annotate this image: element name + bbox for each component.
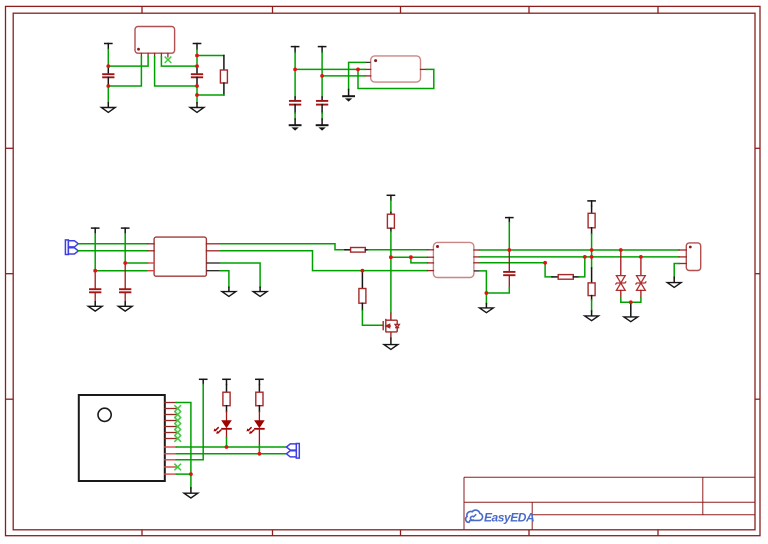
wire LED D3 to row A bbox=[226, 438, 228, 448]
U4 pin 6 right bbox=[474, 256, 480, 258]
U5 pin 2 bbox=[165, 408, 177, 410]
node bbox=[389, 255, 393, 259]
resistor R4 gate pulldown bbox=[359, 271, 366, 311]
P2 pin1 marker bbox=[689, 246, 692, 249]
ground under R7 bbox=[585, 311, 599, 321]
wire net A U3 pin5 to R2 bbox=[220, 244, 345, 250]
resistor R1 bbox=[220, 56, 227, 96]
node bbox=[106, 64, 110, 68]
wire bbox=[321, 53, 323, 98]
wire row A U5 pin8 to P3 pin1 bbox=[176, 446, 286, 448]
wire R6 to row1 bbox=[591, 234, 593, 257]
wire bbox=[390, 200, 392, 212]
no-connect flag pin6 bbox=[175, 430, 181, 436]
IC U3 bbox=[154, 237, 206, 276]
U5 pin 5 bbox=[165, 426, 177, 428]
wire branch to U4 pin3 bbox=[411, 257, 428, 263]
ground under C2 bbox=[190, 103, 204, 113]
zone tick right 3 bbox=[755, 398, 760, 400]
zone tick top 2 bbox=[272, 6, 274, 13]
wire bbox=[321, 113, 323, 119]
node bbox=[225, 445, 229, 449]
wire row3 down to R5 bbox=[545, 263, 552, 277]
power flag rail2 bbox=[122, 228, 129, 234]
LED D4 bbox=[246, 412, 264, 446]
U1 pin 3 bbox=[154, 53, 156, 57]
resistor R5 bbox=[552, 275, 579, 280]
U1 pin1 marker bbox=[137, 48, 140, 51]
wire U3 pin7 to ground bbox=[220, 263, 260, 287]
ground under U3 pin8 bbox=[222, 287, 236, 296]
capacitor C3 bbox=[290, 97, 300, 113]
node bbox=[629, 300, 633, 304]
U2 pin 2 bbox=[365, 68, 371, 70]
U5 pin 12 bbox=[165, 473, 177, 475]
capacitor C1 bbox=[103, 66, 113, 86]
power flag above C3 bbox=[292, 47, 299, 53]
no-connect flag on U1 pin 5 bbox=[165, 57, 171, 62]
zone tick top 5 bbox=[657, 6, 659, 13]
no-connect flag pin3 bbox=[175, 412, 181, 418]
wire R5 up to row2 bbox=[579, 257, 585, 277]
wire U1 pin4 to C2 top bbox=[161, 57, 197, 66]
power flag above C7 bbox=[506, 218, 513, 223]
power flag above R8 bbox=[223, 379, 230, 384]
connector P2 bbox=[686, 243, 700, 271]
U4 pin1 marker bbox=[436, 245, 439, 248]
ground under U5 bbox=[184, 488, 198, 498]
U4 pin 4 left bbox=[428, 270, 434, 272]
U5 pin 6 bbox=[165, 432, 177, 434]
LED D3 bbox=[214, 412, 232, 438]
U5 pin 10 bbox=[165, 459, 177, 461]
U5 pin1 circle marker bbox=[98, 408, 111, 421]
module U5 bbox=[79, 395, 165, 481]
capacitor C4 bbox=[317, 97, 327, 113]
wire U1 pin2 to C1 top bbox=[108, 57, 148, 66]
wire joining D1 D2 bottoms bbox=[621, 298, 641, 303]
U4 pin 1 left bbox=[428, 249, 434, 251]
power flag above R9 bbox=[256, 379, 263, 384]
U3 pin 5 right bbox=[206, 243, 220, 245]
wire P1 pin1 to U3 bbox=[78, 243, 147, 245]
node bbox=[639, 255, 643, 259]
power flag rail3 bbox=[200, 379, 207, 384]
U5 pin 11 bbox=[165, 466, 177, 468]
no-connect flag pin7 bbox=[175, 436, 181, 442]
wire drain node to U4 pin2 bbox=[391, 256, 428, 258]
node bbox=[195, 93, 199, 97]
U3 pin 1 left bbox=[148, 243, 155, 245]
zone tick left 1 bbox=[6, 147, 14, 149]
ground under C6 bbox=[118, 302, 132, 311]
node bbox=[619, 248, 623, 252]
U4 pin 3 left bbox=[428, 262, 434, 264]
power flag above R3 bbox=[387, 195, 394, 200]
connector P3 bbox=[286, 444, 299, 459]
wire rail2 bbox=[124, 234, 126, 263]
resistor R3 bbox=[387, 213, 394, 232]
title block outline bbox=[464, 477, 755, 530]
wire row2 U4 to P2 pin2 bbox=[480, 256, 679, 258]
wire bbox=[294, 113, 296, 119]
node bbox=[590, 255, 594, 259]
P2 pin 2 bbox=[679, 256, 686, 258]
ground under C1 bbox=[101, 103, 115, 113]
EasyEDA logo cloud bbox=[466, 510, 483, 522]
wire R1 bottom to C2 bbox=[197, 94, 224, 96]
wire P1 pin2 to U3 bbox=[78, 250, 147, 252]
P2 pin 3 bbox=[679, 263, 686, 265]
U4 pin 2 left bbox=[428, 256, 434, 258]
U2 pin 3 bbox=[365, 75, 371, 77]
no-connect flag pin11 bbox=[175, 464, 181, 470]
connector P1 bbox=[65, 240, 78, 255]
node bbox=[361, 269, 365, 273]
U4 pin 8 right bbox=[474, 270, 480, 272]
no-connect flag pin5 bbox=[175, 424, 181, 430]
no-connect flag pin2 bbox=[175, 406, 181, 412]
node bbox=[485, 291, 489, 295]
wire C3 to U2 pin2 bbox=[295, 68, 365, 70]
wire R7 to ground bbox=[591, 300, 593, 311]
capacitor C6 bbox=[120, 263, 130, 302]
node bbox=[590, 248, 594, 252]
node bbox=[293, 68, 297, 72]
U1 pin 5 bbox=[167, 53, 169, 57]
wire row3 U4 to R5 bbox=[480, 262, 545, 264]
IC U4 bbox=[433, 242, 474, 277]
U5 pin 1 bbox=[165, 402, 177, 404]
power flag above C2 bbox=[193, 44, 200, 50]
wire U5 pin10 to power rail3 bbox=[176, 385, 203, 460]
U2 pin1 marker bbox=[374, 59, 377, 62]
node bbox=[543, 261, 547, 265]
U4 pin 5 right bbox=[474, 249, 480, 251]
node bbox=[123, 261, 127, 265]
ground under diodes bbox=[624, 302, 638, 321]
node bbox=[258, 452, 262, 456]
wire bbox=[107, 86, 109, 103]
U3 pin 2 left bbox=[148, 250, 155, 252]
zone tick left 2 bbox=[6, 273, 14, 275]
wire rail1 branch to U3 pin4 bbox=[95, 270, 147, 272]
wire row1 U4 to P2 pin1 bbox=[480, 249, 679, 251]
P2 pin 1 bbox=[679, 249, 686, 251]
node bbox=[507, 248, 511, 252]
ground under C4 bbox=[316, 119, 329, 131]
U3 pin 7 right bbox=[206, 262, 220, 264]
wire U2 pin1 to ground bbox=[349, 62, 366, 89]
resistor R7 bbox=[588, 257, 595, 300]
wire P2 pin3 to ground bbox=[674, 264, 679, 278]
U3 pin 8 right bbox=[206, 270, 220, 272]
zone tick top 4 bbox=[528, 6, 530, 13]
resistor R2 bbox=[345, 248, 368, 253]
zone tick bottom 1 bbox=[141, 530, 143, 536]
U1 pin 4 bbox=[160, 53, 162, 57]
resistor R9 bbox=[256, 385, 263, 412]
U3 pin 4 left bbox=[148, 270, 155, 272]
diode D2 TVS bbox=[636, 257, 647, 298]
power flag rail1 bbox=[92, 228, 99, 234]
node bbox=[320, 74, 324, 78]
resistor R8 bbox=[223, 385, 230, 412]
U3 pin 3 left bbox=[148, 262, 155, 264]
wire U3 pin8 to ground bbox=[220, 271, 229, 288]
ground under C3 bbox=[289, 119, 302, 131]
wire bbox=[107, 50, 109, 67]
wire R4 to Q1 gate bbox=[362, 311, 382, 326]
wire U2 pin4 feedback loop bbox=[358, 69, 434, 88]
node bbox=[195, 64, 199, 68]
no-connect flag pin4 bbox=[175, 418, 181, 424]
regulator U1 bbox=[135, 27, 175, 54]
power flag above C1 bbox=[105, 44, 112, 50]
zone tick bottom 3 bbox=[400, 530, 402, 536]
power flag above C4 bbox=[319, 47, 326, 53]
oscillator U2 bbox=[371, 56, 421, 82]
node bbox=[106, 84, 110, 88]
U3 pin 6 right bbox=[206, 250, 220, 252]
U1 pin 2 bbox=[147, 53, 149, 57]
power flag above R6 bbox=[588, 201, 595, 206]
resistor R6 bbox=[588, 206, 595, 234]
ground mid block2 bbox=[342, 90, 355, 102]
zone tick right 1 bbox=[755, 147, 760, 149]
wire rail1 bbox=[94, 234, 96, 271]
wire C4 to U2 pin3 bbox=[322, 75, 365, 77]
capacitor C5 bbox=[90, 271, 100, 302]
node bbox=[93, 269, 97, 273]
capacitor C2 bbox=[192, 66, 202, 86]
ground under Q1 bbox=[384, 338, 398, 349]
node bbox=[409, 255, 413, 259]
zone tick bottom 5 bbox=[657, 530, 659, 536]
ground under U4 bbox=[480, 293, 494, 313]
U5 pin 8 bbox=[165, 446, 177, 448]
wire U5 pin12 to node bbox=[176, 473, 191, 475]
U1 pin 1 bbox=[140, 53, 142, 57]
node bbox=[195, 84, 199, 88]
node bbox=[583, 255, 587, 259]
U2 pin 1 bbox=[365, 61, 371, 63]
ground under C5 bbox=[88, 302, 102, 311]
wire U1 pin3 to C2 bottom bbox=[155, 57, 197, 86]
U5 pin 7 bbox=[165, 438, 177, 440]
wire R2 to U4 pin1 bbox=[368, 249, 427, 251]
node bbox=[356, 68, 360, 72]
zone tick bottom 4 bbox=[528, 530, 530, 536]
wire bbox=[196, 86, 198, 103]
wire node to ground bbox=[190, 474, 192, 488]
svg-text:EasyEDA: EasyEDA bbox=[484, 511, 534, 525]
U5 pin 3 bbox=[165, 414, 177, 416]
zone tick right 2 bbox=[755, 273, 760, 275]
U4 pin 7 right bbox=[474, 262, 480, 264]
capacitor C7 bbox=[504, 250, 514, 288]
wire R3 down to Q1 drain bbox=[390, 232, 392, 313]
zone tick left 3 bbox=[6, 398, 14, 400]
ground under P2 bbox=[667, 277, 681, 287]
wire U4 pin8 to ground node bbox=[480, 271, 487, 293]
wire U1 pin1 to C1 bottom bbox=[108, 57, 141, 86]
node bbox=[189, 472, 193, 476]
U5 pin 9 bbox=[165, 453, 177, 455]
transistor Q1 bbox=[382, 313, 399, 339]
zone tick bottom 2 bbox=[272, 530, 274, 536]
wire bbox=[294, 53, 296, 98]
wire U5 pin1 down left rail bbox=[176, 403, 191, 475]
wire C2 to R1 top bbox=[197, 55, 224, 57]
zone tick top 1 bbox=[141, 6, 143, 13]
wire net B U3 pin6 to U4 pin4 bbox=[220, 251, 427, 271]
wire row B U5 pin9 to P3 pin2 bbox=[176, 453, 286, 455]
wire C7 bottom to ground node bbox=[486, 288, 509, 294]
U2 pin 4 bbox=[421, 68, 427, 70]
zone tick top 3 bbox=[400, 6, 402, 13]
wire bbox=[508, 223, 510, 251]
wire rail2 branch to U3 pin3 bbox=[125, 262, 147, 264]
U5 pin 4 bbox=[165, 420, 177, 422]
ground right of U3 bbox=[253, 287, 267, 296]
wire LED D4 to row B bbox=[258, 445, 260, 454]
diode D1 TVS bbox=[615, 250, 626, 298]
node bbox=[195, 54, 199, 58]
wire bbox=[196, 50, 198, 67]
